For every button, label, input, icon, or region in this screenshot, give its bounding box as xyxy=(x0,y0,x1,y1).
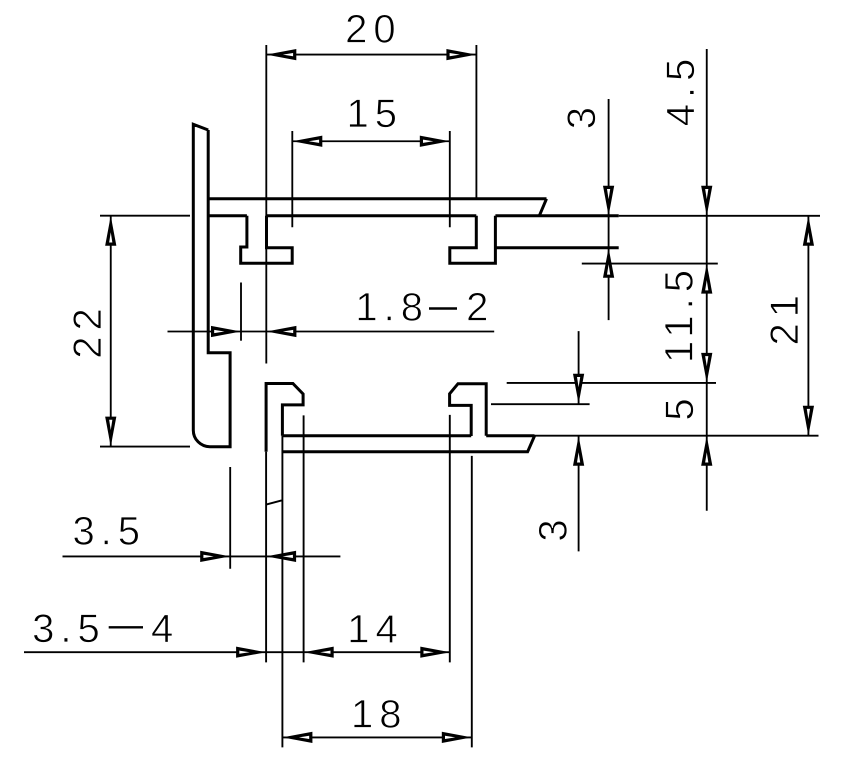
right shelf top edge xyxy=(495,214,618,217)
hook-foot bottom reference line (4.5/11.5) xyxy=(582,263,718,265)
svg-text:20: 20 xyxy=(345,8,402,52)
left hook outer edge extension line xyxy=(265,452,267,663)
22 bottom reference line xyxy=(100,446,190,448)
bottom hook step reference line (3) xyxy=(491,403,590,405)
right T-hook of top flange xyxy=(450,216,496,263)
right channel wall outer edge / 18 ext line xyxy=(471,456,473,748)
svg-text:22: 22 xyxy=(66,302,110,359)
bottom-right upward hook xyxy=(450,384,487,436)
dimension 18 xyxy=(282,736,471,738)
top flange top edge xyxy=(208,197,546,200)
left T-hook of top flange xyxy=(241,216,293,263)
right channel wall inner edge / 14 ext line xyxy=(449,415,451,663)
top flange bottom edge middle segment xyxy=(266,214,476,217)
svg-text:14: 14 xyxy=(347,608,404,652)
bottom hook top reference line (11.5/5) xyxy=(507,382,716,384)
svg-text:3: 3 xyxy=(560,101,604,129)
top flange right chamfer xyxy=(539,199,546,216)
svg-text:15: 15 xyxy=(347,92,404,136)
svg-text:3.5: 3.5 xyxy=(72,510,146,554)
bottom plate top edge right of hook xyxy=(486,434,534,437)
20 left / 1.8-2 right extension line xyxy=(265,45,267,364)
bottom plate bottom edge with right chamfer xyxy=(282,436,534,452)
svg-text:5: 5 xyxy=(658,392,702,420)
right shelf top edge extension (21 ref) xyxy=(619,215,820,217)
bottom plate top ref line to 21/5/3 dims xyxy=(535,435,819,437)
22 top reference line xyxy=(100,215,190,217)
20 right extension line xyxy=(475,45,477,199)
dimension 3.5 xyxy=(63,555,341,557)
left wall of upper profile xyxy=(193,124,230,446)
dimension 1.8-2 xyxy=(168,331,495,333)
dimension 21 xyxy=(807,216,809,436)
dimension 3 (bottom) xyxy=(578,331,580,404)
15 right extension line xyxy=(449,131,451,227)
diagonal transition tick on left channel wall xyxy=(266,500,282,504)
bottom plate top edge (left of right hook) xyxy=(282,434,471,437)
dash of 1.8-2 label xyxy=(429,307,457,309)
svg-text:4.5: 4.5 xyxy=(659,53,703,127)
svg-text:11.5: 11.5 xyxy=(658,264,702,363)
dimensions 3.5-4 and 14 (chained) xyxy=(24,651,450,653)
3.5 left extension line xyxy=(229,467,231,569)
dimension 15 xyxy=(292,140,450,142)
svg-text:1.8: 1.8 xyxy=(355,286,429,330)
svg-text:18: 18 xyxy=(351,693,408,737)
dash of 3.5-4 label xyxy=(109,626,143,628)
svg-text:3.5: 3.5 xyxy=(32,607,106,651)
1.8-2 left extension line xyxy=(240,283,242,341)
top flange bottom edge left segment xyxy=(208,214,247,217)
left channel wall outer edge / 18 ext line xyxy=(281,436,283,748)
dimension 20 xyxy=(266,54,476,56)
svg-text:2: 2 xyxy=(466,286,494,330)
svg-text:4: 4 xyxy=(151,607,179,651)
right shelf bottom edge xyxy=(495,246,618,249)
dimension 22 xyxy=(110,216,112,447)
15 left extension line xyxy=(291,131,293,227)
dimension 4.5 / 11.5 / 5 shared line xyxy=(706,49,708,511)
svg-text:21: 21 xyxy=(763,289,807,346)
dimension 3 (top right) xyxy=(608,99,610,320)
left channel wall inner edge / 14 ext line xyxy=(303,415,305,662)
svg-text:3: 3 xyxy=(532,513,576,541)
bottom-left upward hook xyxy=(266,384,303,452)
